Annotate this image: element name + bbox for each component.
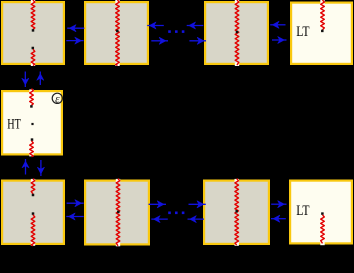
spring HT lower (30, 141, 34, 157)
border break bottom-box2 top (116, 179, 120, 182)
top oscillator box 3 (205, 2, 268, 64)
arrow up HT-bottom (22, 159, 29, 175)
border break box1 bottom (31, 62, 35, 66)
spring top box3 (235, 0, 239, 65)
border break box3 bottom (235, 62, 239, 66)
border break bottom-box1 bottom (31, 242, 35, 246)
svg-text:ε: ε (55, 93, 60, 105)
arrow left bottom gap2 right (188, 216, 205, 223)
arrow left top gap3 (270, 21, 285, 28)
top oscillator box 2 (85, 2, 148, 64)
spring bottom LT (321, 215, 325, 244)
mass dot bottom LT (321, 212, 324, 215)
bottom cold reservoir box LT (290, 181, 352, 244)
border break box3 top (235, 0, 239, 3)
arrow right top gap1 (66, 37, 83, 44)
arrow left bottom gap3 (271, 215, 286, 222)
spring bottom box1 lower (31, 215, 35, 246)
spring top LT (321, 0, 325, 30)
top oscillator box 1 (2, 2, 64, 64)
top cold reservoir box LT (291, 3, 352, 64)
arrow right bottom gap1 (67, 200, 84, 207)
mass dot bottom box3 (235, 210, 238, 213)
border break HT bottom (29, 153, 33, 157)
spring top box2 (116, 0, 120, 66)
arrow left bottom gap1 (66, 213, 83, 220)
spring bottom box3 (235, 179, 239, 245)
bottom oscillator box 2 (85, 181, 149, 245)
svg-text:LT: LT (296, 203, 309, 219)
border break box2 bottom (115, 62, 119, 66)
hot reservoir box HT (2, 91, 62, 154)
mass dot top box1 upper (32, 29, 35, 32)
arrow up HT-top (37, 72, 44, 86)
mass dot bottom box1 lower (32, 212, 35, 215)
arrow left bottom gap2 left (151, 216, 168, 223)
mass dot top box3 (236, 31, 239, 34)
ellipsis bottom gap2 (168, 212, 184, 215)
border break bottom-box3 bottom (235, 242, 239, 246)
border break LT top (320, 0, 324, 4)
arrow right bottom gap2 right (189, 201, 206, 208)
svg-text:LT: LT (296, 24, 309, 40)
mass dot bottom box1 upper (32, 194, 35, 197)
arrow right bottom gap2 left (149, 201, 166, 208)
spring top box1 lower (31, 49, 35, 65)
arrow right top gap3 (272, 37, 287, 44)
circled epsilon label (52, 93, 62, 105)
ellipsis top gap2 (168, 30, 184, 33)
border break box2 top (115, 0, 119, 3)
border break bottom-LT bottom (320, 242, 324, 246)
center dot HT (31, 123, 33, 125)
arrow right top gap2 left (151, 37, 168, 44)
bottom oscillator box 1 (2, 181, 64, 244)
spring bottom box1 upper (31, 179, 35, 194)
arrow down HT-top (22, 72, 29, 88)
mass dot HT lower (31, 138, 34, 141)
border break bottom-box1 top (31, 179, 35, 182)
spring HT upper (30, 89, 34, 106)
arrow left top gap1 (67, 25, 84, 32)
arrow right top gap2 right (189, 37, 206, 44)
arrow left top gap2 right (187, 22, 204, 29)
spring top box1 upper (31, 0, 35, 29)
mass dot top box1 lower (32, 47, 35, 50)
bottom oscillator box 3 (204, 181, 269, 244)
mass dot top box2 (116, 30, 119, 33)
border break bottom-box3 top (235, 179, 239, 182)
border break HT top (29, 89, 33, 92)
border break bottom-box2 bottom (116, 243, 120, 247)
border break box1 top (31, 0, 35, 3)
mass dot bottom box2 (117, 211, 120, 214)
mass dot top LT (321, 30, 324, 33)
arrow right bottom gap3 (271, 201, 286, 208)
arrow down HT-bottom (37, 160, 44, 176)
svg-text:HT: HT (7, 116, 21, 132)
mass dot HT upper (30, 105, 33, 108)
arrow left top gap2 left (147, 22, 164, 29)
spring bottom box2 (116, 179, 120, 246)
